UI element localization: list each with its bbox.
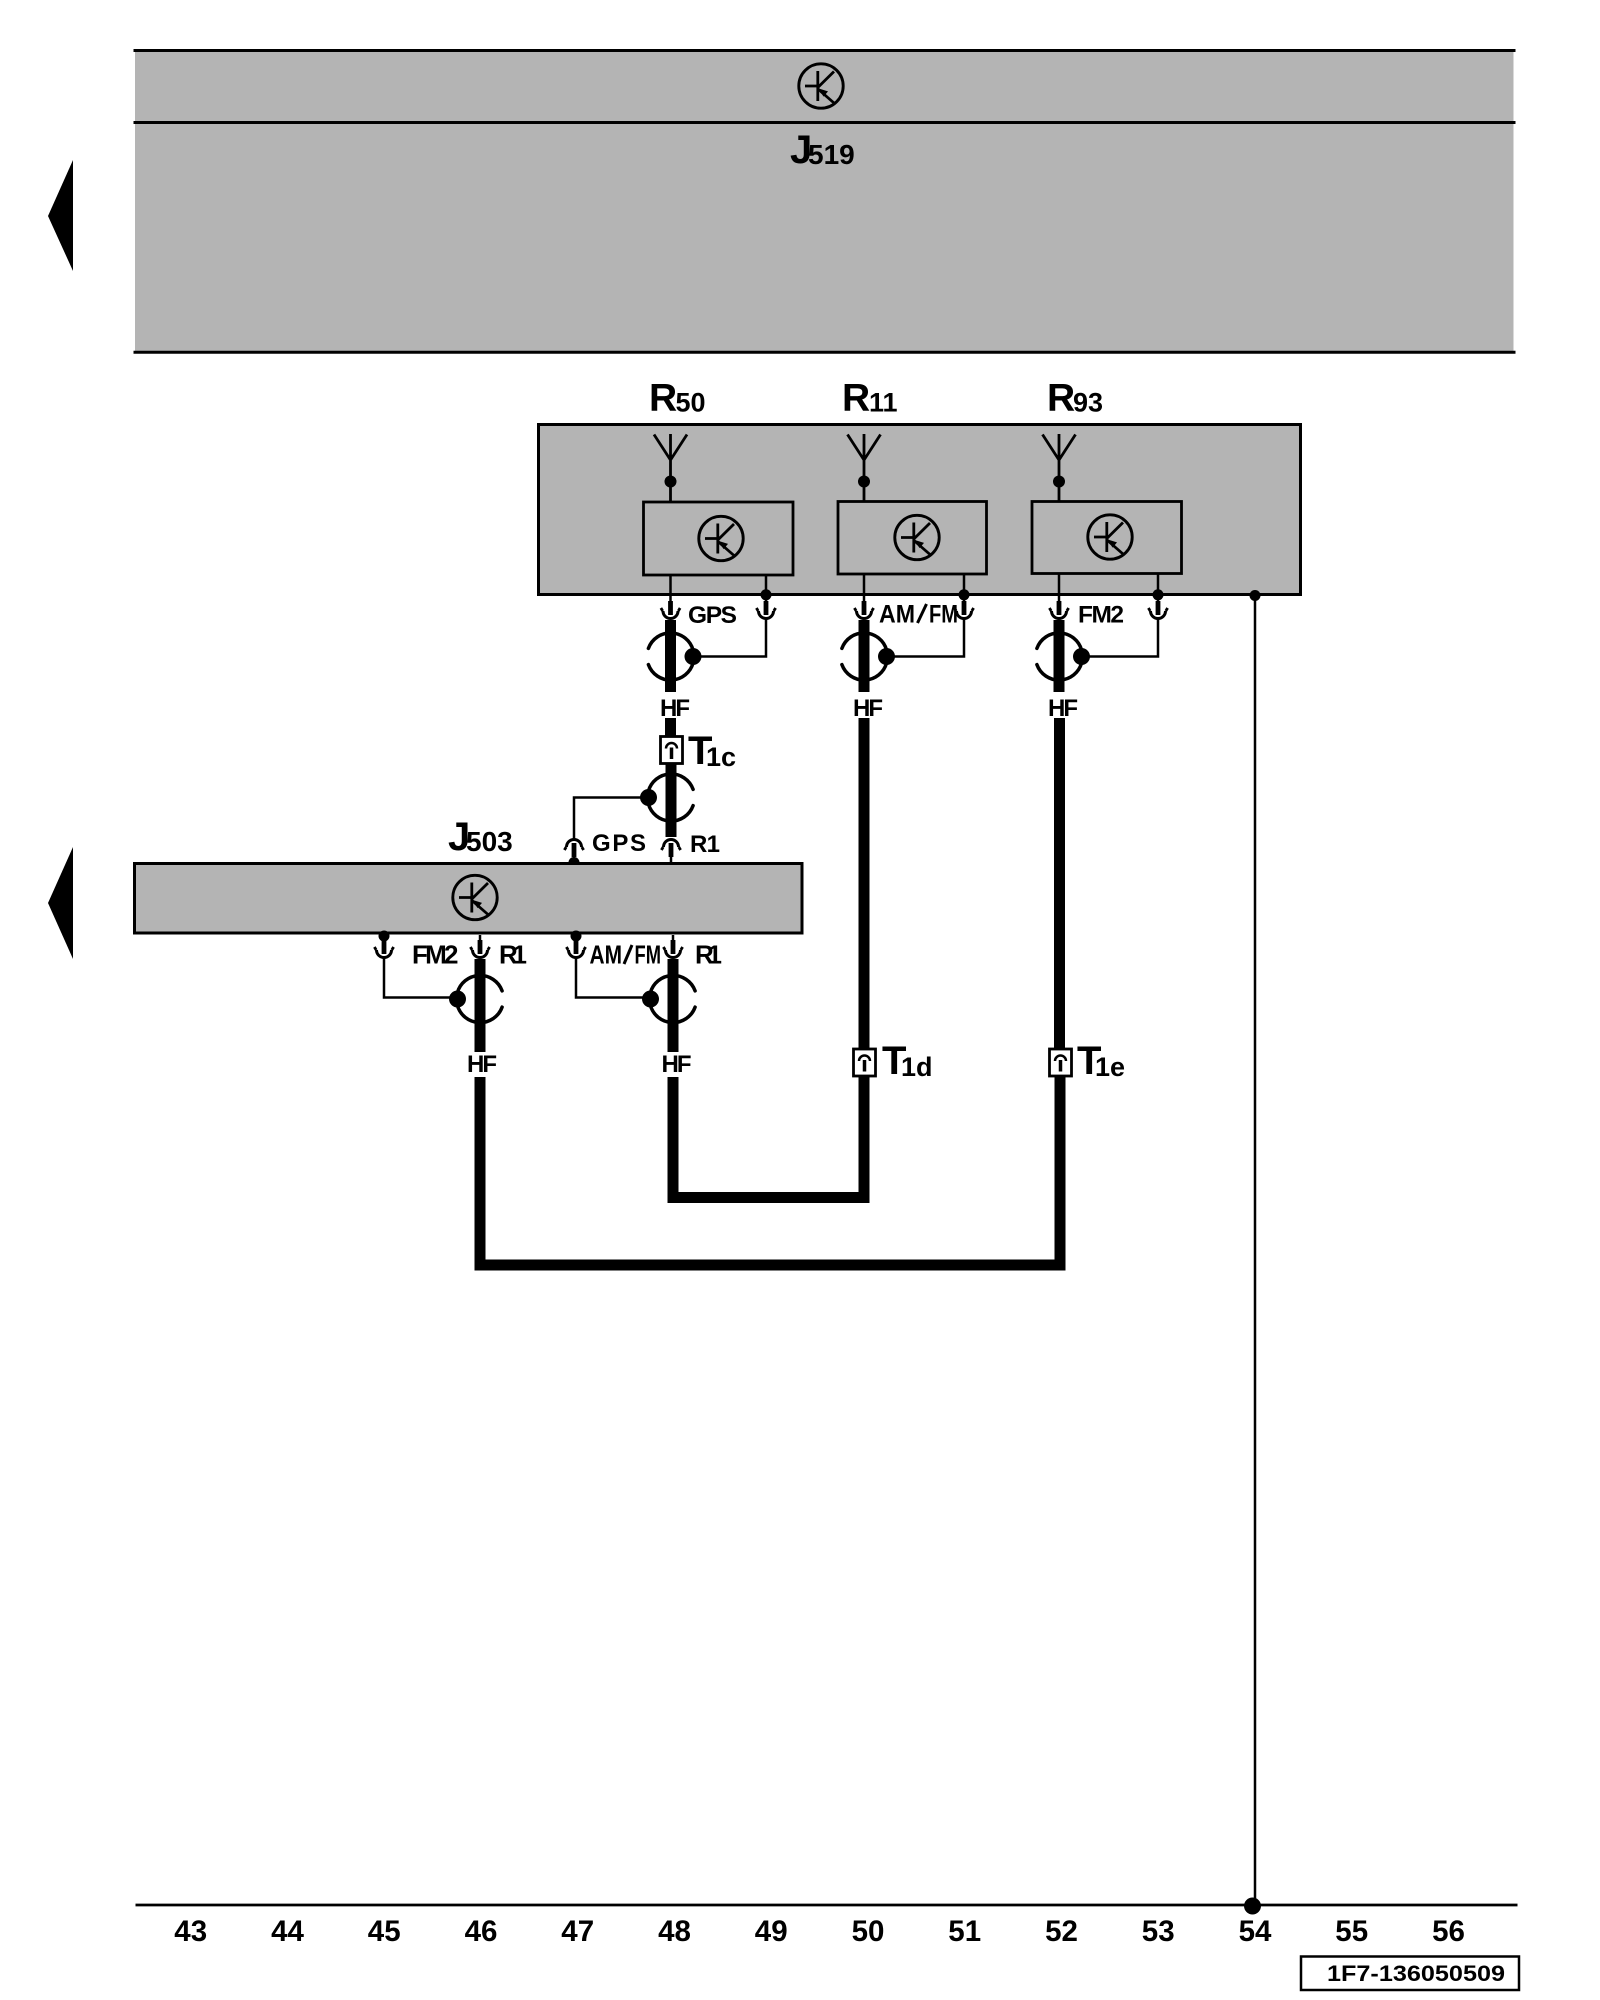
svg-text:55: 55 [1335,1915,1368,1948]
shield symbol GPS [648,633,701,680]
page arrow (left, top) [48,160,73,271]
svg-text:49: 49 [755,1915,788,1948]
coax wire GPS upper [665,620,676,692]
wire FM2 branch to shield [384,958,457,998]
antenna symbol R93 [1043,434,1076,502]
coax wire below T1c [666,764,677,838]
connector AM/FM at antenna box [854,596,873,619]
label R11 [842,377,898,420]
svg-text:43: 43 [174,1915,207,1948]
node on R11 shield lead [959,589,970,600]
shield symbol FM2 [1037,633,1090,680]
amplifier box R11 [838,502,987,575]
coax wire AM/FM to T1d [859,718,870,1050]
wire R50 signal lead [669,575,672,596]
svg-text:93: 93 [1073,388,1103,418]
wire AM/FM branch to shield [576,958,650,998]
svg-text:44: 44 [271,1915,304,1948]
svg-text:R1: R1 [695,940,722,970]
page arrow (left, middle) [48,847,73,959]
wire AM/FM shield return [887,619,965,657]
wire R50 shield lead [765,575,768,596]
connector R50 shield at antenna box [756,596,775,619]
svg-text:11: 11 [869,388,898,418]
wire R93 shield lead [1157,574,1160,597]
svg-text:HF: HF [853,695,883,722]
svg-text:FM2: FM2 [412,940,459,970]
svg-text:R: R [649,377,677,420]
shield symbol AM/FM R1 [642,975,695,1022]
connector T1c [661,737,683,764]
svg-text:R1: R1 [499,940,527,970]
label T1c [688,729,736,773]
svg-text:519: 519 [808,139,855,170]
connector R1 (GPS coax) at J503 [661,840,680,863]
svg-text:HF: HF [660,695,690,722]
svg-text:R: R [842,377,870,420]
coax wire AM/FM main [859,620,870,692]
svg-text:HF: HF [662,1051,692,1078]
connector R93 shield at antenna box [1148,596,1167,619]
svg-text:503: 503 [466,826,513,857]
node GPS at J503 [569,857,580,868]
coax wire AM/FM R1 upper [668,959,679,1052]
connector GPS at J503 [564,840,583,863]
svg-text:46: 46 [465,1915,498,1948]
coax wire GPS to T1c [665,718,676,738]
svg-text:GPS: GPS [688,602,737,629]
svg-text:45: 45 [368,1915,401,1948]
node AM/FM below J503 [571,931,582,942]
coax wire FM2/R1 upper [475,959,486,1052]
shield symbol AM/FM [842,633,895,680]
svg-text:47: 47 [561,1915,594,1948]
track numbers 43-56 [174,1915,1465,1948]
svg-text:AM: AM [590,940,623,970]
svg-text:48: 48 [658,1915,691,1948]
svg-text:HF: HF [1048,695,1078,722]
wire FM2 shield return [1082,619,1159,657]
node on R50 shield lead [761,589,772,600]
amplifier box R50 [644,502,794,575]
node FM2 below J503 [379,931,390,942]
svg-text:FM: FM [635,940,662,970]
svg-text:50: 50 [852,1915,885,1948]
label T1d [882,1039,933,1083]
internal connection symbol in J503 [453,875,497,919]
svg-text:GPS: GPS [592,830,646,857]
label J503 [448,815,513,859]
current track baseline [136,1904,1518,1907]
antenna symbol R50 [654,434,687,502]
wire R11 shield lead [963,574,966,596]
coax wire FM2 to T1e [1054,718,1065,1050]
svg-text:53: 53 [1142,1915,1175,1948]
internal connection symbol in J519 [799,64,843,108]
connector AM/FM at J503 [566,935,585,958]
wire GPS shield return [693,619,766,657]
svg-text:1c: 1c [706,742,736,772]
svg-text:51: 51 [948,1915,981,1948]
wire GPS shield branch to J503 [574,798,649,842]
svg-text:AM: AM [879,601,915,629]
node on box edge track 54 [1250,590,1261,601]
shield symbol FM2/R1 [449,975,502,1022]
connector R1 (AM/FM coax) at J503 [663,935,682,958]
svg-text:52: 52 [1045,1915,1078,1948]
internal connection symbol in R50 [699,516,743,560]
internal connection symbol in R11 [895,515,939,559]
svg-text:FM2: FM2 [1078,602,1124,629]
antenna module box (R50/R11/R93) [539,425,1301,595]
svg-text:56: 56 [1432,1915,1465,1948]
coax wire AM/FM R1 to T1d loop [673,1074,864,1198]
wire R11 signal lead [863,574,866,596]
connector FM2 at antenna box [1049,596,1068,619]
coax wire FM2 main [1054,620,1065,692]
connector T1d [854,1049,876,1076]
wire track 54 down [1254,596,1257,1906]
wire R93 signal lead [1058,574,1061,597]
svg-text:HF: HF [467,1051,497,1078]
internal connection symbol in R93 [1088,515,1132,559]
shield symbol below T1c [640,774,693,821]
svg-text:1F7-136050509: 1F7-136050509 [1327,1961,1505,1986]
svg-text:R: R [1047,377,1075,420]
connector R1 (FM2 coax) at J503 [470,935,489,958]
label R93 [1047,377,1103,420]
connector GPS at antenna box [661,596,680,619]
control unit box J503 [135,864,803,934]
svg-text:R1: R1 [690,831,720,858]
svg-text:1d: 1d [901,1052,933,1082]
control unit box J519 [134,50,1516,354]
label R50 [649,377,706,420]
label T1e [1077,1039,1125,1083]
svg-text:1e: 1e [1095,1052,1125,1082]
connector T1e [1050,1049,1072,1076]
svg-text:FM: FM [929,601,958,629]
node track 54 at baseline [1244,1898,1261,1915]
connector FM2 at J503 [374,935,393,958]
antenna symbol R11 [848,434,881,502]
label J519 [790,128,855,172]
svg-text:54: 54 [1239,1915,1272,1948]
amplifier box R93 [1032,502,1182,574]
coax wire FM2/R1 to T1e loop [480,1074,1060,1265]
connector R11 shield at antenna box [954,596,973,619]
diagram reference box 1F7-136050509 [1301,1957,1519,1991]
node on R93 shield lead [1153,589,1164,600]
svg-text:50: 50 [676,388,706,418]
